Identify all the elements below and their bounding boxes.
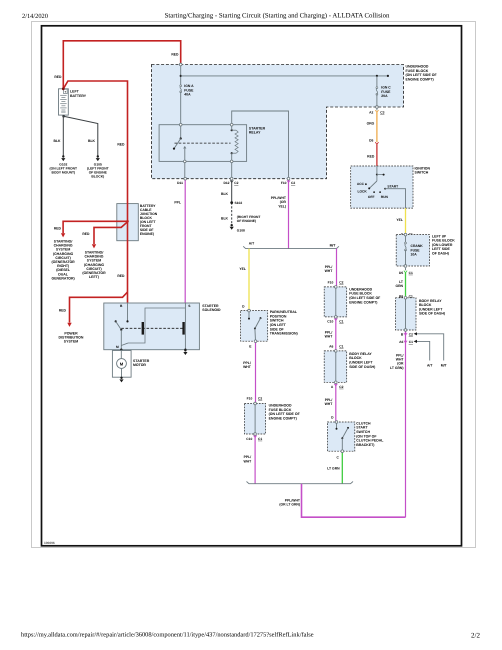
svg-text:WHT: WHT — [243, 365, 252, 369]
svg-text:C2: C2 — [339, 281, 343, 285]
svg-text:2/2: 2/2 — [471, 632, 480, 640]
svg-text:OF ENGINE): OF ENGINE) — [237, 219, 256, 223]
svg-text:M/T: M/T — [441, 364, 448, 368]
svg-text:M: M — [120, 361, 124, 366]
svg-text:A2: A2 — [369, 110, 373, 114]
svg-text:RED: RED — [82, 232, 90, 236]
svg-text:LT GRN): LT GRN) — [390, 366, 404, 370]
svg-text:YEL: YEL — [239, 267, 246, 271]
svg-text:C1: C1 — [339, 319, 343, 323]
svg-text:C10: C10 — [246, 437, 252, 441]
svg-text:F10: F10 — [247, 397, 253, 401]
svg-text:C10: C10 — [327, 319, 333, 323]
svg-text:C1: C1 — [339, 345, 343, 349]
svg-text:SWITCH: SWITCH — [415, 171, 429, 175]
svg-text:SIDE OF DASH): SIDE OF DASH) — [419, 312, 445, 316]
svg-text:YEL: YEL — [396, 218, 403, 222]
svg-text:OF DASH): OF DASH) — [432, 252, 449, 256]
svg-text:20A: 20A — [381, 94, 388, 98]
svg-text:RED: RED — [117, 274, 125, 278]
svg-text:SIDE OF DASH): SIDE OF DASH) — [349, 365, 375, 369]
svg-text:YEL): YEL) — [278, 204, 286, 208]
svg-text:A/T: A/T — [427, 364, 433, 368]
svg-text:RED: RED — [59, 309, 67, 313]
svg-text:BLK: BLK — [54, 139, 62, 143]
svg-text:RED: RED — [171, 53, 179, 57]
svg-text:C1: C1 — [258, 437, 262, 441]
svg-text:ORG: ORG — [367, 122, 375, 126]
svg-text:ENGINE): ENGINE) — [140, 232, 154, 236]
svg-text:+: + — [64, 90, 66, 94]
svg-text:M: M — [116, 345, 119, 349]
svg-text:WHT: WHT — [325, 402, 334, 406]
svg-text:WHT: WHT — [325, 335, 334, 339]
svg-text:C2: C2 — [339, 385, 343, 389]
svg-text:C2: C2 — [234, 181, 238, 185]
svg-text:100696: 100696 — [44, 541, 55, 545]
svg-text:ACC: ACC — [357, 182, 365, 186]
svg-text:START: START — [387, 185, 398, 189]
svg-text:GRN: GRN — [395, 284, 403, 288]
svg-text:BATTERY: BATTERY — [70, 94, 87, 98]
svg-text:PPL: PPL — [174, 201, 181, 205]
svg-text:D12: D12 — [223, 181, 229, 185]
svg-text:F10: F10 — [328, 281, 334, 285]
svg-text:RELAY: RELAY — [249, 131, 261, 135]
svg-text:40A: 40A — [184, 93, 191, 97]
svg-text:2/14/2020: 2/14/2020 — [22, 13, 48, 20]
svg-text:BLOCK): BLOCK) — [91, 174, 104, 178]
svg-text:D5: D5 — [399, 271, 403, 275]
svg-text:C2: C2 — [409, 332, 413, 336]
svg-text:SYSTEM: SYSTEM — [64, 340, 78, 344]
svg-text:C1: C1 — [409, 340, 413, 344]
svg-text:A/T: A/T — [249, 241, 255, 245]
svg-text:D5: D5 — [369, 139, 373, 143]
svg-text:A6: A6 — [329, 345, 333, 349]
svg-text:LOCK: LOCK — [357, 190, 367, 194]
svg-text:WHT: WHT — [243, 459, 252, 463]
svg-text:BLK: BLK — [88, 139, 96, 143]
svg-text:RED: RED — [367, 155, 375, 159]
svg-text:(OR LT GRN): (OR LT GRN) — [279, 503, 300, 507]
svg-text:SOLENOID: SOLENOID — [202, 308, 221, 312]
svg-text:M/T: M/T — [330, 244, 337, 248]
svg-text:ENGINE COMPT): ENGINE COMPT) — [406, 77, 434, 81]
svg-text:GENERATOR): GENERATOR) — [51, 276, 74, 280]
svg-text:D11: D11 — [177, 181, 183, 185]
svg-text:BRACKET): BRACKET) — [356, 443, 374, 447]
svg-text:C1: C1 — [409, 271, 413, 275]
svg-text:S102: S102 — [235, 201, 243, 205]
svg-text:https://my.alldata.com/repair/: https://my.alldata.com/repair/#/repair/a… — [21, 632, 314, 639]
svg-text:BLK: BLK — [221, 192, 229, 196]
svg-text:Starting/Charging - Starting C: Starting/Charging - Starting Circuit (St… — [165, 13, 390, 20]
svg-text:LT GRN: LT GRN — [327, 466, 340, 470]
svg-text:ENGINE COMPT): ENGINE COMPT) — [269, 416, 297, 420]
svg-text:ENGINE COMPT): ENGINE COMPT) — [349, 300, 377, 304]
svg-text:RED: RED — [54, 227, 62, 231]
svg-text:10A: 10A — [411, 253, 418, 257]
svg-text:LEFT): LEFT) — [89, 275, 99, 279]
svg-text:RUN: RUN — [381, 195, 389, 199]
svg-text:RED: RED — [117, 143, 125, 147]
svg-text:TRANSMISSION): TRANSMISSION) — [270, 332, 298, 336]
svg-text:MOTOR: MOTOR — [133, 363, 146, 367]
svg-text:C2: C2 — [258, 397, 262, 401]
svg-text:G108: G108 — [237, 228, 245, 232]
svg-text:OFF: OFF — [368, 195, 375, 199]
svg-text:C2: C2 — [291, 181, 295, 185]
svg-text:A6: A6 — [399, 340, 403, 344]
svg-text:F10: F10 — [281, 181, 287, 185]
svg-text:BODY MOUNT): BODY MOUNT) — [52, 170, 76, 174]
svg-text:WHT: WHT — [325, 269, 334, 273]
svg-text:RED: RED — [54, 75, 62, 79]
svg-text:C3: C3 — [380, 110, 384, 114]
svg-text:BLK: BLK — [221, 217, 229, 221]
